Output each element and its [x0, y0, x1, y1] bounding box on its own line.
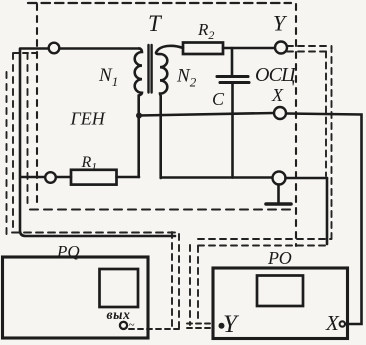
- common bottom wire: [161, 176, 273, 179]
- Y cable dashed vertical right inner: [325, 52, 327, 177]
- Y cable dashed vertical x198: [197, 246, 199, 322]
- resistor R1: [71, 170, 117, 185]
- wire R1 to N1 lead: [117, 176, 140, 179]
- PQ cable dashed vertical x172: [171, 232, 173, 329]
- instrument PQ box: [3, 257, 149, 338]
- Y cable dashed pair top: [287, 45, 331, 47]
- enclosure dashed frame right: [295, 4, 297, 246]
- junction dot: [136, 113, 142, 119]
- svg-text:~: ~: [129, 319, 135, 331]
- PQ output terminal: [120, 322, 127, 329]
- svg-text:РО: РО: [267, 248, 292, 268]
- svg-text:ОСЦ: ОСЦ: [255, 64, 297, 86]
- enclosure dashed frame left: [36, 4, 38, 208]
- svg-text:ГЕН: ГЕН: [70, 109, 106, 129]
- terminal ground node: [273, 172, 286, 185]
- cable dashed line x4.5: [6, 72, 8, 235]
- terminal X: [274, 107, 286, 119]
- wire generator top to terminal: [21, 47, 48, 50]
- transformer T secondary winding N2: [156, 46, 183, 178]
- Y cable dashed vertical right outer: [331, 46, 333, 240]
- terminal bottom: [45, 172, 56, 183]
- ground return wire corner: [326, 178, 329, 244]
- svg-text:X: X: [325, 311, 340, 335]
- Y cable dashed vertical x190: [189, 245, 191, 325]
- wire ground node to corner: [286, 177, 328, 180]
- PO screen: [257, 276, 303, 307]
- Y cable dashed into PO Y terminal: [187, 324, 214, 329]
- wire terminal to R1: [57, 176, 72, 179]
- terminal Y: [275, 42, 287, 54]
- svg-text:С: С: [212, 89, 225, 109]
- cable dashed connector top-left: [14, 52, 36, 54]
- Y cable dashed pair middle: [198, 238, 331, 240]
- cable dashed line y231: [12, 232, 179, 234]
- PO X input terminal: [340, 321, 345, 326]
- wire generator bottom to terminal: [21, 176, 45, 179]
- cable dashed line x29.5: [27, 53, 29, 206]
- wire terminal to transformer: [60, 47, 140, 50]
- svg-text:T: T: [148, 11, 163, 36]
- capacitor branch wire top: [231, 48, 234, 76]
- cable dashed line x12.5: [12, 53, 14, 233]
- svg-text:PQ: PQ: [56, 242, 80, 261]
- PQ screen: [100, 269, 139, 307]
- terminal top: [49, 43, 60, 54]
- PQ cable dashed vertical x179: [178, 234, 180, 329]
- enclosure dashed frame bottom: [30, 208, 296, 210]
- capacitor branch wire bottom: [231, 84, 234, 178]
- svg-text:X: X: [271, 85, 284, 105]
- transformer core: [149, 45, 152, 93]
- generator GEN cable bus vertical: [20, 49, 175, 237]
- enclosure dashed frame top: [28, 2, 291, 4]
- capacitor C plates: [217, 75, 248, 78]
- X node wire: [139, 113, 274, 116]
- PQ cable dashed horizontal to output: [129, 328, 179, 330]
- wire R2 to Y terminal: [223, 47, 275, 50]
- ground: [277, 185, 280, 203]
- PO Y input terminal: [219, 323, 225, 329]
- transformer T primary winding N1: [135, 49, 142, 178]
- instrument PO box: [213, 268, 348, 339]
- svg-text:вых: вых: [107, 307, 131, 322]
- X cable wire: [286, 114, 362, 325]
- resistor R2: [183, 43, 223, 55]
